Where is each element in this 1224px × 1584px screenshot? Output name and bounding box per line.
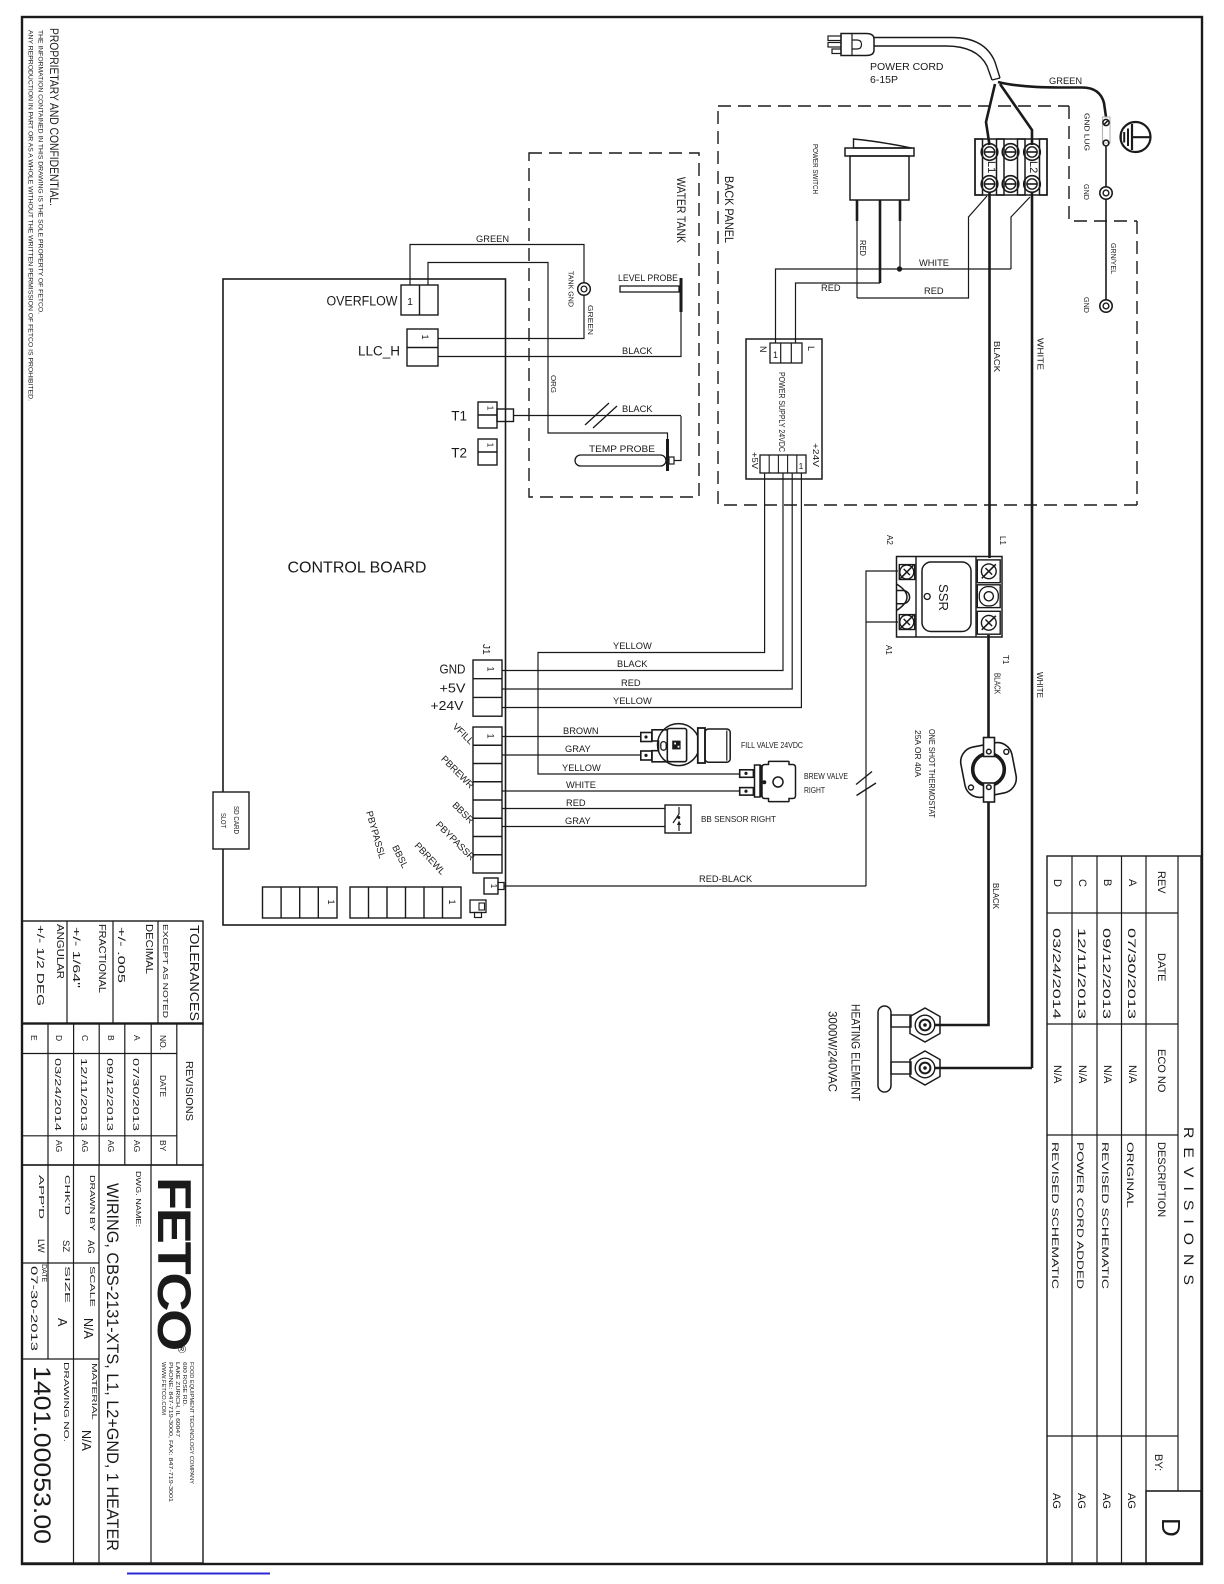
small revisions table — [22, 1023, 203, 1165]
gnd ring terminal 1 — [1100, 187, 1112, 199]
svg-text:REVISIONS: REVISIONS — [183, 1061, 195, 1121]
svg-text:N/A: N/A — [1076, 1065, 1088, 1084]
svg-text:GREEN: GREEN — [1049, 76, 1082, 86]
break symbol brew valve wire — [856, 772, 872, 785]
svg-text:SIZE: SIZE — [63, 1266, 72, 1303]
svg-text:N/A: N/A — [81, 1318, 95, 1340]
svg-text:6-15P: 6-15P — [870, 74, 898, 86]
power switch pins — [856, 200, 859, 221]
svg-text:+5V: +5V — [750, 452, 759, 470]
wire level probe to LLC_H (BLACK) — [438, 312, 681, 357]
tolerances table — [22, 921, 203, 1024]
svg-text:TANK GND: TANK GND — [567, 271, 576, 308]
svg-text:WATER TANK: WATER TANK — [674, 177, 688, 243]
svg-text:FOOD EQUIPMENT TECHNOLOGY COMP: FOOD EQUIPMENT TECHNOLOGY COMPANY — [188, 1362, 194, 1484]
PS1 output connector — [760, 455, 806, 473]
svg-text:BLACK: BLACK — [992, 341, 1001, 373]
svg-text:AG: AG — [85, 1240, 96, 1254]
svg-text:C: C — [80, 1035, 90, 1041]
back panel enclosure (dashed) — [718, 105, 1069, 107]
svg-text:J1: J1 — [480, 644, 491, 655]
svg-text:N/A: N/A — [1051, 1065, 1063, 1084]
svg-text:L: L — [806, 346, 816, 351]
svg-text:RED: RED — [821, 283, 841, 293]
svg-text:1: 1 — [486, 733, 496, 738]
svg-text:1: 1 — [489, 884, 498, 889]
svg-text:POWER CORD ADDED: POWER CORD ADDED — [1074, 1142, 1085, 1289]
svg-text:+/- 1/64": +/- 1/64" — [70, 927, 82, 988]
svg-text:1: 1 — [799, 461, 804, 471]
svg-text:ANY REPRODUCTION IN PART OR AS: ANY REPRODUCTION IN PART OR AS A WHOLE W… — [27, 30, 34, 401]
wire cord hot2 BLACK to TB1 — [1000, 84, 1032, 145]
svg-text:LW: LW — [35, 1239, 46, 1253]
svg-text:POWER CORD: POWER CORD — [870, 61, 944, 73]
svg-text:12/11/2013: 12/11/2013 — [1075, 928, 1087, 1019]
svg-text:DWG. NAME:: DWG. NAME: — [134, 1171, 143, 1227]
svg-text:RED-BLACK: RED-BLACK — [699, 874, 753, 884]
svg-text:LAKE ZURICH, IL 60047: LAKE ZURICH, IL 60047 — [174, 1362, 180, 1437]
water tank enclosure (dashed) — [529, 153, 699, 497]
wire PS1 BLACK to J1 GND — [502, 473, 783, 671]
svg-text:B: B — [106, 1035, 116, 1041]
break symbol — [585, 403, 609, 425]
svg-text:BLACK: BLACK — [622, 404, 653, 414]
svg-text:YELLOW: YELLOW — [562, 763, 601, 773]
wire TB1 L2 down (WHITE) — [1031, 193, 1034, 1068]
svg-text:SCALE: SCALE — [88, 1266, 97, 1307]
svg-text:DATE: DATE — [40, 1264, 47, 1282]
brew valve BV1 — [740, 770, 754, 778]
svg-text:GND: GND — [440, 663, 466, 677]
svg-text:BB SENSOR RIGHT: BB SENSOR RIGHT — [701, 814, 776, 824]
svg-text:ORG: ORG — [549, 375, 558, 393]
wire switch N WHITE — [776, 269, 1012, 343]
svg-text:L1: L1 — [985, 161, 997, 173]
svg-text:DESCRIPTION: DESCRIPTION — [1155, 1142, 1167, 1217]
svg-text:+/- .005: +/- .005 — [115, 927, 127, 983]
svg-text:REVISED SCHEMATIC: REVISED SCHEMATIC — [1099, 1142, 1110, 1289]
wire cord hot1 BLACK to TB1 — [986, 84, 995, 145]
power switch S1 — [845, 148, 914, 156]
svg-text:GRAY: GRAY — [565, 816, 591, 826]
svg-text:YELLOW: YELLOW — [613, 696, 652, 706]
svg-text:SLOT: SLOT — [219, 813, 228, 828]
component small jumper — [470, 900, 486, 913]
wire lug to gnd ring1 — [1105, 146, 1107, 187]
svg-text:L2: L2 — [1027, 161, 1039, 173]
wire switch L RED — [796, 283, 881, 343]
TB1 screws row2 — [981, 176, 998, 193]
svg-text:A1: A1 — [884, 645, 893, 655]
wire GRN/YEL ring1 to ring2 — [1105, 199, 1107, 300]
SSR A1 screw — [899, 615, 914, 630]
svg-text:AG: AG — [1075, 1493, 1087, 1509]
wire OVERFLOW pin2 ORG to temp probe — [428, 263, 668, 440]
wire switch line RED to terminal L1 — [857, 196, 987, 298]
connector J1 signal block — [473, 727, 502, 873]
svg-text:L1: L1 — [998, 536, 1007, 545]
connector LLC_H — [407, 329, 438, 366]
BB sensor right reed switch — [665, 805, 691, 833]
svg-text:1: 1 — [407, 296, 413, 308]
svg-text:09/12/2013: 09/12/2013 — [105, 1058, 115, 1131]
svg-text:EXCEPT AS NOTED: EXCEPT AS NOTED — [161, 924, 170, 1019]
SSR A2 screw — [899, 565, 914, 580]
svg-text:WWW.FETCO.COM: WWW.FETCO.COM — [160, 1362, 166, 1415]
svg-text:TOLERANCES: TOLERANCES — [187, 925, 201, 1021]
svg-text:AG: AG — [1125, 1493, 1137, 1509]
svg-text:RED: RED — [924, 286, 944, 296]
svg-text:AG: AG — [80, 1140, 90, 1152]
svg-text:RED: RED — [566, 798, 586, 808]
svg-text:SD CARD: SD CARD — [232, 806, 241, 834]
svg-text:1: 1 — [486, 666, 496, 671]
svg-text:AG: AG — [54, 1140, 64, 1152]
svg-text:AG: AG — [1050, 1493, 1062, 1509]
ground lug GND LUG — [1103, 117, 1111, 143]
SSR body — [922, 562, 971, 632]
svg-text:DECIMAL: DECIMAL — [143, 924, 155, 974]
power cord plug 6-15P — [841, 34, 874, 56]
svg-text:BREW VALVE: BREW VALVE — [804, 771, 848, 781]
svg-text:GRAY: GRAY — [565, 744, 591, 754]
svg-text:600 ROSE RD.: 600 ROSE RD. — [181, 1362, 187, 1406]
svg-text:BLACK: BLACK — [617, 659, 648, 669]
svg-text:PHONE: 847-719-3000, FAX: 847-: PHONE: 847-719-3000, FAX: 847-719-3001 — [167, 1362, 173, 1502]
control board outline — [223, 279, 506, 925]
svg-text:N/A: N/A — [79, 1430, 93, 1452]
svg-text:07-30-2013: 07-30-2013 — [28, 1266, 39, 1351]
svg-text:BROWN: BROWN — [563, 726, 599, 736]
svg-text:DRAWING NO.: DRAWING NO. — [62, 1362, 71, 1442]
svg-text:MATERIAL: MATERIAL — [90, 1363, 99, 1420]
svg-text:07/30/2013: 07/30/2013 — [131, 1058, 141, 1131]
svg-text:RED: RED — [621, 678, 641, 688]
wire PBREWR WHITE — [502, 790, 740, 792]
svg-text:12/11/2013: 12/11/2013 — [79, 1058, 89, 1131]
junction switch-white — [897, 266, 902, 271]
svg-text:GND: GND — [1082, 297, 1091, 314]
svg-text:N/A: N/A — [1126, 1065, 1138, 1084]
svg-text:GND: GND — [1082, 184, 1091, 201]
svg-text:T2: T2 — [451, 446, 467, 461]
svg-text:WIRING, CBS-2131-XTS, L1, L2+G: WIRING, CBS-2131-XTS, L1, L2+GND, 1 HEAT… — [103, 1183, 121, 1551]
connector P-left 4pos — [263, 887, 338, 918]
svg-text:09/12/2013: 09/12/2013 — [1100, 928, 1112, 1019]
svg-text:BY:: BY: — [1152, 1454, 1164, 1471]
svg-text:NO.: NO. — [158, 1035, 168, 1050]
svg-text:E: E — [29, 1035, 39, 1041]
svg-text:BLACK: BLACK — [991, 883, 1000, 910]
svg-text:C: C — [1076, 879, 1088, 887]
connector RED-BLACK single — [484, 878, 498, 894]
svg-text:1: 1 — [486, 406, 495, 411]
svg-text:1: 1 — [486, 443, 495, 448]
svg-text:BLACK: BLACK — [993, 673, 1002, 695]
svg-text:+24V: +24V — [431, 699, 465, 713]
svg-text:FETCO: FETCO — [148, 1177, 201, 1349]
svg-text:1: 1 — [447, 899, 457, 904]
wire SSR A2-A1 jumper — [866, 571, 898, 622]
svg-text:1: 1 — [326, 899, 336, 904]
svg-text:03/24/2014: 03/24/2014 — [53, 1058, 63, 1131]
svg-text:CONTROL BOARD: CONTROL BOARD — [288, 560, 427, 577]
svg-text:DATE: DATE — [158, 1075, 168, 1097]
svg-text:BLACK: BLACK — [622, 346, 653, 356]
wire temp probe tail — [674, 416, 681, 461]
revisions table D box — [1146, 1491, 1201, 1563]
connector P-bottom 6pos — [350, 887, 461, 918]
svg-text:A: A — [1126, 879, 1138, 887]
earth ground symbol — [1121, 122, 1151, 152]
svg-text:ANGULAR: ANGULAR — [54, 924, 66, 979]
fill valve FV1 24VDC — [641, 733, 652, 742]
svg-text:N: N — [758, 346, 768, 353]
wire TB1 L1 to SSR (BLACK) — [988, 193, 991, 558]
svg-text:A2: A2 — [885, 535, 894, 545]
wire BBSR GRAY — [502, 826, 665, 828]
svg-text:REVISED SCHEMATIC: REVISED SCHEMATIC — [1049, 1142, 1060, 1289]
wire PS1 +5V YELLOW to brew valve — [538, 473, 765, 774]
svg-text:POWER SUPPLY 24VDC: POWER SUPPLY 24VDC — [777, 372, 786, 452]
svg-text:1: 1 — [773, 350, 778, 360]
svg-text:THE INFORMATION CONTAINED IN T: THE INFORMATION CONTAINED IN THIS DRAWIN… — [37, 30, 44, 314]
svg-text:RIGHT: RIGHT — [804, 785, 825, 795]
svg-text:B: B — [1101, 879, 1113, 886]
wire VFILL BROWN — [502, 736, 640, 738]
TS1 bottom terminal — [984, 783, 995, 802]
wire SSR T1 to thermostat (BLACK) — [987, 635, 990, 737]
svg-text:+24V: +24V — [811, 443, 820, 468]
one shot thermostat TS1 — [958, 740, 1019, 800]
svg-text:DATE: DATE — [1155, 953, 1167, 982]
svg-text:YELLOW: YELLOW — [613, 641, 652, 651]
wire thermostat to heating element (BLACK) — [935, 802, 989, 1025]
SD card slot — [213, 792, 249, 849]
svg-text:BY: BY — [158, 1140, 168, 1152]
svg-text:WHITE: WHITE — [1035, 672, 1044, 698]
title block frame — [22, 1165, 203, 1563]
svg-text:AG: AG — [1100, 1493, 1112, 1509]
svg-text:A: A — [132, 1035, 142, 1041]
svg-text:N/A: N/A — [1101, 1065, 1113, 1084]
svg-text:25A OR 40A: 25A OR 40A — [913, 730, 923, 777]
svg-text:SZ: SZ — [60, 1240, 71, 1252]
connector T2 — [478, 439, 497, 465]
svg-text:BACK PANEL: BACK PANEL — [722, 176, 736, 243]
wire BBSR RED — [502, 808, 665, 810]
wire PS1 YELLOW to J1 +24V — [502, 473, 801, 708]
svg-text:1: 1 — [420, 334, 430, 339]
svg-text:OVERFLOW: OVERFLOW — [327, 294, 398, 309]
svg-text:+5V: +5V — [440, 682, 467, 696]
wire cord GREEN to gnd lug — [998, 82, 1106, 117]
svg-text:D: D — [1051, 879, 1063, 887]
wire tank gnd to LLC_H (GREEN) — [438, 296, 584, 339]
svg-text:WHITE: WHITE — [1036, 338, 1045, 370]
svg-text:SSR: SSR — [936, 584, 951, 611]
wire L2 to heating element — [935, 1067, 1032, 1070]
svg-text:3000W/240VAC: 3000W/240VAC — [826, 1011, 840, 1092]
svg-text:FILL VALVE 24VDC: FILL VALVE 24VDC — [741, 740, 803, 750]
tank ground eyelet TANK GND — [578, 283, 591, 296]
wire SSR control down to RED-BLACK — [865, 622, 867, 886]
revisions table — [1047, 856, 1201, 1563]
connector T1 — [478, 402, 497, 428]
svg-text:+/- 1/2 DEG: +/- 1/2 DEG — [34, 925, 46, 1006]
svg-text:03/24/2014: 03/24/2014 — [1050, 928, 1062, 1019]
svg-text:AG: AG — [106, 1140, 116, 1152]
power cord cable — [874, 38, 1000, 79]
wire VFILL GRAY — [502, 754, 640, 756]
hyperlink underline — [127, 1573, 270, 1575]
wire T1 BLACK with break — [514, 415, 681, 417]
solid state relay SSR — [897, 557, 1003, 638]
svg-text:POWER SWITCH: POWER SWITCH — [811, 144, 820, 194]
svg-text:GRN/YEL: GRN/YEL — [1109, 243, 1118, 274]
svg-text:LLC_H: LLC_H — [358, 344, 400, 359]
svg-text:ORIGINAL: ORIGINAL — [1124, 1142, 1135, 1208]
svg-text:LEVEL PROBE: LEVEL PROBE — [618, 273, 678, 284]
svg-text:T1: T1 — [451, 409, 467, 424]
wire RED-BLACK to SSR — [504, 885, 866, 887]
SSR right terminal strip — [975, 557, 977, 638]
svg-text:HEATING ELEMENT: HEATING ELEMENT — [849, 1004, 863, 1102]
SSR left mounting notch — [897, 584, 908, 611]
svg-text:CHK'D: CHK'D — [63, 1175, 72, 1216]
svg-text:REV: REV — [1155, 871, 1167, 894]
svg-text:GREEN: GREEN — [586, 305, 595, 335]
svg-text:FRACTIONAL: FRACTIONAL — [96, 924, 108, 993]
svg-text:ONE SHOT THERMOSTAT: ONE SHOT THERMOSTAT — [927, 729, 937, 818]
svg-text:07/30/2013: 07/30/2013 — [1125, 928, 1137, 1019]
svg-text:PROPRIETARY AND CONFIDENTIAL.: PROPRIETARY AND CONFIDENTIAL. — [47, 28, 59, 206]
svg-text:REVISIONS: REVISIONS — [1181, 1127, 1197, 1294]
svg-text:AG: AG — [132, 1140, 142, 1152]
svg-text:ECO NO: ECO NO — [1155, 1049, 1167, 1093]
svg-text:1401.00053.00: 1401.00053.00 — [28, 1366, 55, 1544]
PS1 input connector N-L — [770, 343, 802, 363]
svg-text:DRAWN BY: DRAWN BY — [88, 1175, 97, 1231]
wire white diag to terminal L2 — [1011, 197, 1030, 269]
svg-text:D: D — [1156, 1518, 1186, 1537]
svg-text:WHITE: WHITE — [919, 258, 949, 268]
svg-text:®: ® — [175, 1345, 187, 1353]
heating element HE1 3000W/240VAC — [878, 1006, 891, 1092]
svg-text:TEMP PROBE: TEMP PROBE — [589, 444, 655, 455]
svg-text:A: A — [55, 1318, 69, 1327]
gnd ring terminal 2 — [1100, 300, 1112, 312]
wire PS1 RED to J1 +5V — [502, 473, 792, 689]
wire OVERFLOW pin1 GREEN — [410, 245, 584, 286]
svg-text:WHITE: WHITE — [566, 780, 596, 790]
svg-text:RED: RED — [858, 240, 867, 256]
power supply PS1 24VDC — [746, 339, 822, 479]
svg-text:GND LUG: GND LUG — [1083, 113, 1092, 151]
svg-text:APP'D: APP'D — [37, 1175, 46, 1220]
TS1 top terminal — [984, 738, 995, 757]
terminal block TB1 — [975, 139, 1047, 195]
svg-text:D: D — [54, 1035, 64, 1041]
svg-text:GREEN: GREEN — [476, 234, 509, 244]
TB1 screws row1 — [981, 144, 998, 161]
connector J1 power block — [473, 660, 502, 716]
connector OVERFLOW — [401, 285, 438, 315]
svg-text:T1: T1 — [1001, 655, 1010, 665]
